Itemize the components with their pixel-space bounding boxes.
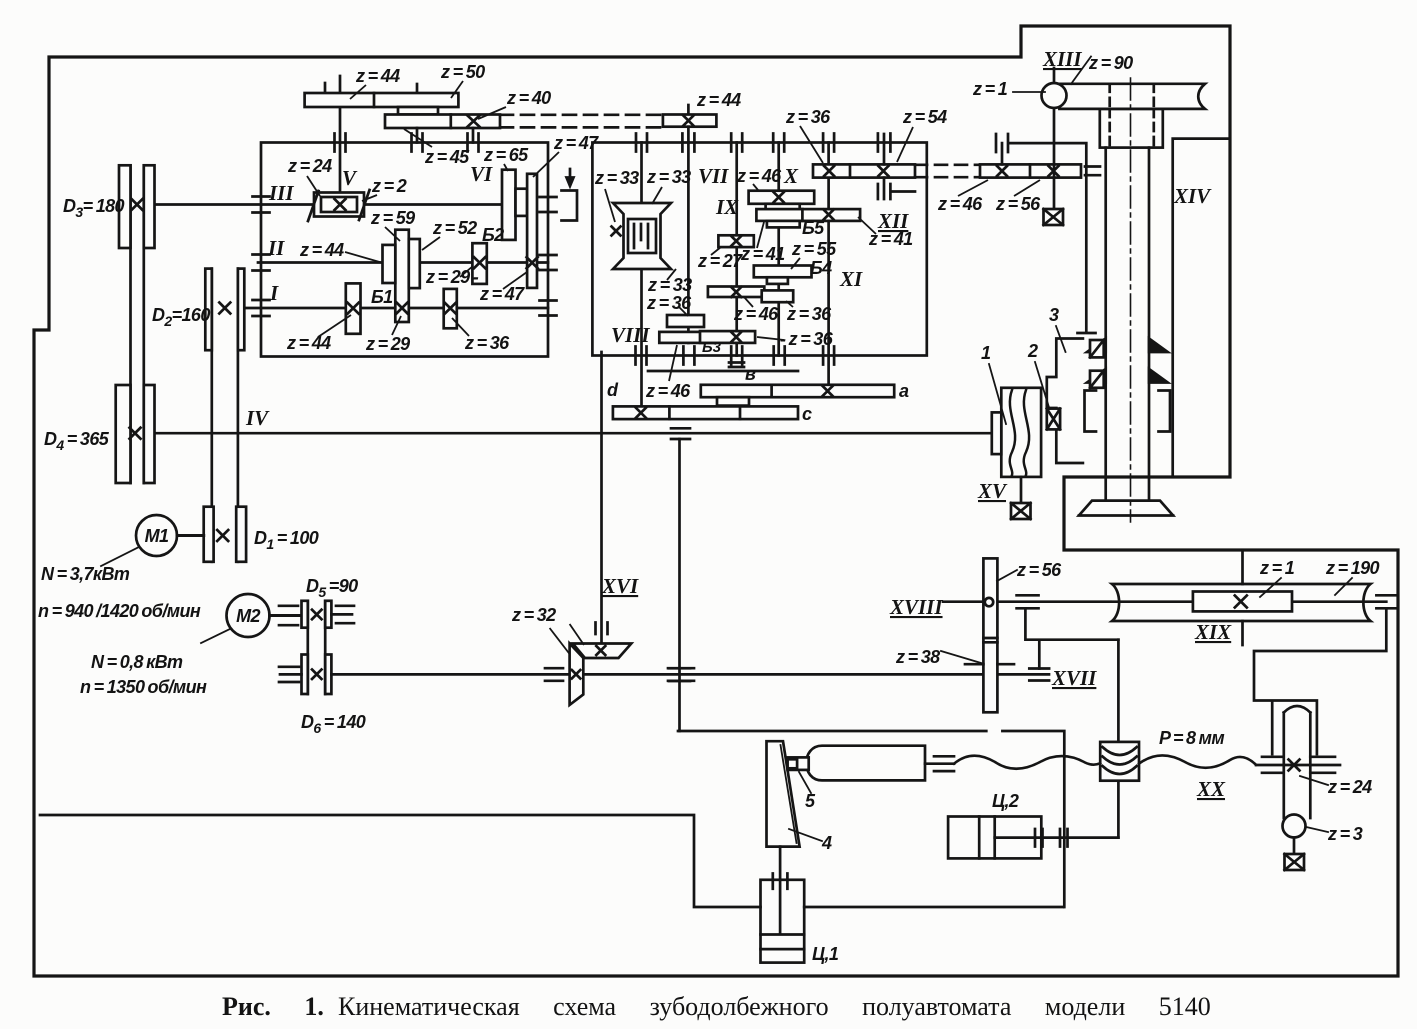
bearing shaft III at box1 right edge — [540, 197, 557, 212]
worm sleeve XIX — [1112, 584, 1371, 621]
leader z=41 right — [858, 217, 876, 234]
clutch housing item 3 — [1047, 339, 1083, 464]
ram tail shaft — [925, 762, 954, 765]
M2 leader line — [201, 629, 230, 643]
svg-text:VIII: VIII — [611, 323, 650, 347]
leader z=55 — [791, 258, 800, 269]
leader z=29 shaft II — [460, 266, 473, 277]
ram slide — [806, 746, 925, 781]
bearing right of XIX — [1376, 595, 1396, 608]
svg-text:Кинематическая схема зубодол: Кинематическая схема зубодолбежного полу… — [338, 992, 1211, 1021]
svg-text:XIV: XIV — [1173, 184, 1212, 208]
change-gear b upper line — [648, 370, 798, 373]
gear z=56 z=38 block — [983, 558, 997, 712]
shaft XVI vertical — [600, 352, 603, 644]
svg-text:5: 5 — [805, 791, 816, 811]
bearing shaft XI at box2 top — [823, 134, 834, 152]
leader z=47 top — [533, 152, 559, 177]
coupling on shaft IV to vertical feed shaft — [671, 428, 690, 439]
gear rect z=46 + z=56 — [980, 164, 1081, 177]
svg-text:XX: XX — [1196, 777, 1226, 801]
shaft X vertical — [777, 143, 780, 356]
M1 leader line — [101, 547, 139, 566]
bevel gear z=32 vertical — [570, 644, 584, 705]
gear z=46 on shaft X — [749, 191, 815, 211]
bearing shaft X at box2 bottom — [774, 347, 785, 365]
shaft stub z=46 — [1001, 143, 1004, 164]
shaft I — [244, 307, 548, 310]
bearing shaft IX at box2 bottom — [731, 347, 742, 365]
change-gear rack c — [613, 406, 798, 419]
svg-text:N = 0,8 кВт: N = 0,8 кВт — [91, 652, 183, 672]
leader z=33 right — [652, 187, 662, 204]
gear z=41 + B5 on shaft XI — [756, 209, 860, 227]
hub between z=50 and z=45 — [398, 107, 438, 115]
leader line item 1 — [989, 364, 1006, 424]
leader item 5 — [799, 772, 811, 793]
M1 shaft — [177, 534, 204, 537]
rope drum — [1100, 742, 1139, 781]
svg-text:z = 190: z = 190 — [1325, 558, 1380, 578]
shaft XII stub and bearings — [878, 134, 915, 200]
clutch X of z=29 on shaft I — [397, 303, 408, 314]
svg-text:в: в — [745, 364, 756, 384]
bearing shaft II at box1 right edge — [540, 255, 557, 270]
svg-text:z = 24: z = 24 — [1327, 777, 1372, 797]
bearing on shaft XVII right of bevel — [668, 668, 694, 681]
pulley D6 — [302, 655, 332, 695]
svg-text:z = 46: z = 46 — [736, 166, 782, 186]
svg-text:z = 32: z = 32 — [511, 605, 556, 625]
bearing shaft I at box1 left edge — [253, 300, 270, 316]
shaft XVII horizontal — [331, 673, 1049, 676]
bearing shaft VII at box2 bottom — [683, 347, 694, 365]
speed gearbox housing — [261, 143, 548, 357]
leader z=47 low — [503, 272, 527, 289]
svg-text:z = 36: z = 36 — [464, 333, 510, 353]
shaft XIX axis — [1112, 600, 1386, 603]
bearing at bevel z=32 — [596, 623, 608, 635]
gear z=29 on shaft II — [472, 243, 486, 284]
svg-text:z = 33: z = 33 — [594, 168, 639, 188]
svg-text:z = 40: z = 40 — [506, 88, 551, 108]
bearing shaft VIII at box2 bottom — [636, 347, 647, 365]
bearing shaft II at box1 left edge — [253, 255, 270, 271]
pulley D4 — [116, 385, 155, 483]
leader z=46 XII — [958, 180, 988, 196]
leader z=190 — [1335, 578, 1352, 595]
rod guide marks — [773, 874, 788, 889]
gear z=52 on shaft II — [409, 239, 420, 288]
shaft below z=3 — [1293, 838, 1296, 855]
svg-text:z = 52: z = 52 — [432, 218, 477, 238]
svg-text:XII: XII — [877, 209, 909, 233]
svg-text:z = 59: z = 59 — [370, 208, 415, 228]
shaft VII stub to box2 — [687, 127, 690, 143]
svg-text:XIX: XIX — [1194, 620, 1232, 644]
bearing right of XII row — [1085, 167, 1100, 176]
rope right span — [1139, 755, 1256, 767]
gear z=36 on shaft VII — [667, 315, 704, 327]
svg-text:z = 3: z = 3 — [1327, 824, 1363, 844]
leader line item 2 — [1035, 362, 1050, 409]
leader z=36 XII — [800, 126, 823, 163]
svg-text:IV: IV — [245, 406, 270, 430]
spindle body — [1106, 148, 1149, 501]
svg-text:z = 50: z = 50 — [440, 62, 485, 82]
svg-text:D5 =90: D5 =90 — [306, 576, 358, 600]
svg-text:M2: M2 — [236, 606, 260, 626]
svg-text:1: 1 — [981, 343, 991, 363]
svg-text:D6 = 140: D6 = 140 — [301, 712, 366, 736]
gear z=36 low on shaft IX — [700, 331, 755, 343]
leader z=33 left — [605, 189, 615, 222]
leader z=65 — [504, 164, 508, 171]
svg-text:d: d — [607, 380, 619, 400]
claw coupling at shaft XVII crossing — [669, 668, 690, 681]
gear z=44 on shaft II — [383, 245, 396, 283]
change-gear rack a — [701, 385, 894, 397]
svg-text:z = 55: z = 55 — [791, 239, 837, 259]
svg-text:z = 36: z = 36 — [785, 107, 831, 127]
leader z=50 — [451, 81, 463, 98]
rope left span — [954, 756, 1100, 769]
wire top housing segment — [1010, 143, 1096, 333]
pulley D2 — [205, 269, 244, 351]
belt D3-D4 — [131, 165, 144, 483]
svg-text:D2=160: D2=160 — [152, 305, 210, 329]
shaft VII vertical — [687, 143, 690, 343]
belt D5-D6 — [308, 601, 325, 694]
countershaft stub below z=45 — [416, 128, 419, 143]
svg-text:Б3: Б3 — [702, 339, 722, 356]
leader z=36 bottom — [452, 318, 469, 336]
gear rect z=44 + z=50 — [305, 93, 459, 107]
spindle bearing lower pair — [1087, 369, 1168, 383]
svg-text:XVII: XVII — [1051, 666, 1097, 690]
svg-text:Б5: Б5 — [802, 218, 825, 238]
svg-text:XIII: XIII — [1042, 47, 1082, 71]
gear z=90 sleeve — [1059, 57, 1205, 109]
coupling marks on b line — [729, 363, 744, 368]
cone drum on shaft VIII — [612, 203, 672, 269]
svg-text:n = 1350 об/мин: n = 1350 об/мин — [80, 677, 207, 697]
leader z=2 — [362, 195, 377, 201]
bearing shaft VII at box2 top — [682, 134, 694, 152]
svg-text:z = 41: z = 41 — [740, 244, 785, 264]
vertical feed shaft down from IV — [678, 439, 681, 731]
bearing shaft IX at box2 top — [731, 134, 742, 152]
bearing shaft VIII at box2 top — [636, 134, 647, 152]
roller item 5 — [788, 757, 809, 770]
spindle axis — [1130, 78, 1132, 522]
motor M2 — [227, 594, 270, 637]
svg-text:z = 1: z = 1 — [1259, 558, 1295, 578]
leader z=46 shaft X — [753, 184, 758, 190]
svg-text:z = 54: z = 54 — [902, 107, 947, 127]
coupling on shaft XVIII — [1017, 595, 1039, 608]
gear z=47 on shaft VI — [527, 174, 538, 288]
bearing shaft I at box1 right edge — [540, 301, 557, 316]
svg-text:D3= 180: D3= 180 — [63, 196, 125, 220]
worm z=2 on shaft III — [308, 190, 370, 221]
svg-text:z = 46: z = 46 — [733, 304, 779, 324]
thrust bearing below z=3 — [1285, 854, 1305, 870]
svg-text:Ц,2: Ц,2 — [992, 791, 1019, 811]
cylinder C1 — [761, 880, 805, 963]
chain loop z=24 — [1284, 706, 1311, 818]
elastic coupling item 1 — [1001, 388, 1041, 477]
thrust bearing below XV — [1011, 503, 1031, 519]
svg-text:z = 27: z = 27 — [697, 251, 743, 271]
shaft V vertical — [339, 76, 342, 193]
leader z=44 bottom — [318, 315, 351, 337]
svg-text:Б1: Б1 — [371, 287, 393, 307]
svg-text:D1 = 100: D1 = 100 — [254, 528, 319, 552]
leader z=3 — [1306, 827, 1328, 832]
shaft II — [258, 261, 548, 264]
shaft VII stub above gear — [687, 105, 690, 115]
svg-text:VII: VII — [698, 164, 729, 188]
svg-text:z = 47: z = 47 — [553, 133, 599, 153]
svg-text:z = 29: z = 29 — [365, 334, 410, 354]
clutch X on sprocket — [1289, 760, 1300, 771]
svg-text:z = 29 -: z = 29 - — [425, 267, 479, 287]
svg-text:z = 36: z = 36 — [786, 304, 832, 324]
bearing shaft XI at box2 bottom — [823, 347, 834, 365]
svg-text:IX: IX — [715, 195, 739, 219]
svg-text:z = 24: z = 24 — [287, 156, 332, 176]
dashed link z=54 to z=46 — [915, 165, 980, 177]
tool head column XIV outline — [1173, 139, 1229, 477]
svg-text:XVIII: XVIII — [889, 595, 943, 619]
gear z=36 on shaft I — [444, 289, 457, 328]
svg-text:2: 2 — [1027, 341, 1038, 361]
cam follower rod — [779, 847, 782, 934]
bearing pad upper — [1090, 340, 1104, 357]
svg-text:z = 38: z = 38 — [895, 647, 940, 667]
feed gearbox housing — [592, 143, 926, 356]
shaft XVIII horizontal — [943, 600, 1110, 603]
gear z=44 on shaft I — [346, 283, 361, 333]
bearing shaft X at box2 top — [773, 134, 784, 152]
chain sprocket shaft — [1256, 764, 1340, 767]
worm z=1 on XIX — [1193, 592, 1292, 612]
svg-text:XI: XI — [839, 267, 863, 291]
D6 left shaft stub — [279, 667, 302, 682]
D5 right shaft stub — [331, 606, 354, 623]
leader z=44 shaft II — [345, 252, 383, 263]
svg-text:XVI: XVI — [601, 574, 639, 598]
leader z=27 — [711, 247, 721, 255]
shaft III — [155, 203, 503, 206]
spindle foot — [1079, 501, 1173, 516]
svg-text:VI: VI — [470, 162, 493, 186]
shaft XV tail — [1020, 477, 1023, 503]
detent bracket — [562, 191, 578, 221]
claw coupling to shaft XVII — [1029, 669, 1049, 681]
leader line item 3 — [1056, 326, 1066, 352]
spindle bearing housing — [1100, 109, 1163, 148]
vertical shaft to rope drum — [1117, 640, 1120, 838]
svg-text:D4 = 365: D4 = 365 — [44, 429, 110, 453]
leader z=54 — [897, 127, 913, 162]
leader z=59 — [385, 227, 400, 241]
svg-text:z = 44: z = 44 — [299, 240, 344, 260]
leader z=38 gear — [941, 651, 981, 663]
coupling pair a on C2 rod — [1035, 829, 1043, 847]
shaft stub left of rect1 — [324, 83, 327, 93]
leader z=45 — [404, 129, 432, 147]
dashed link z=40 to z=44 — [500, 115, 663, 128]
leader z=32 b — [570, 624, 584, 645]
svg-text:z = 44: z = 44 — [696, 90, 741, 110]
leader z=1 worm — [1260, 578, 1281, 597]
leader z=36 mid — [786, 301, 793, 307]
svg-text:N = 3,7кВт: N = 3,7кВт — [41, 564, 130, 584]
bevel gear z=32 horizontal — [573, 644, 632, 659]
leader z=56 XII — [1014, 180, 1040, 196]
svg-text:P = 8 мм: P = 8 мм — [1159, 728, 1224, 748]
svg-text:M1: M1 — [145, 526, 169, 546]
shaft IV — [155, 432, 992, 435]
clutch item 2 — [1047, 409, 1060, 430]
leader z=29 bottom — [392, 316, 401, 335]
svg-text:z = 56: z = 56 — [1016, 560, 1062, 580]
svg-text:4: 4 — [821, 833, 832, 853]
bearing left of sprocket — [1262, 757, 1282, 773]
gear z=55 + B4 on shaft X — [754, 266, 812, 284]
svg-text:z = 46: z = 46 — [645, 381, 691, 401]
shaft XIII vertical — [1053, 68, 1056, 209]
z=40 shaft stub below — [472, 128, 475, 143]
coupling pair b on C2 rod — [1060, 829, 1068, 847]
M2 coupling — [279, 606, 298, 625]
bearing counter-shaft at box1 top — [412, 134, 423, 152]
shaft IX vertical — [735, 143, 738, 356]
detent arrow — [567, 169, 574, 186]
cylinder C2 — [948, 817, 1041, 859]
svg-text:a: a — [899, 381, 909, 401]
svg-text:X: X — [783, 164, 799, 188]
gear z=65 on shaft VI — [502, 170, 516, 240]
svg-text:z = 36: z = 36 — [646, 293, 692, 313]
hub line of z=38 — [965, 663, 1014, 666]
bearing at top housing segment — [996, 134, 1008, 152]
leader z=33 low — [667, 269, 676, 280]
countershaft stub above gear z=50 — [416, 84, 419, 93]
svg-text:z = 2: z = 2 — [371, 176, 407, 196]
svg-text:z = 56: z = 56 — [995, 194, 1041, 214]
leader z=56 gear — [997, 570, 1017, 581]
leader z=44 top — [350, 85, 366, 99]
shaft VIII vertical — [640, 143, 643, 418]
z=1 leader line — [1013, 91, 1045, 93]
svg-text:z = 33: z = 33 — [646, 167, 691, 187]
bearing right of sprocket — [1310, 757, 1335, 773]
svg-text:Рис. 1.: Рис. 1. — [222, 992, 324, 1021]
motor M1 — [136, 515, 177, 556]
gear z=27 on shaft IX — [718, 235, 753, 247]
svg-text:3: 3 — [1049, 305, 1059, 325]
svg-text:XV: XV — [977, 479, 1008, 503]
pulley D5 — [302, 601, 332, 628]
gear rect z=45 + z=40 — [385, 115, 500, 129]
leader z=40 — [478, 107, 506, 119]
leader z=52 — [422, 237, 440, 250]
pulley D3 — [119, 165, 155, 248]
leader item 4 — [789, 829, 822, 841]
svg-text:- z = 36: - z = 36 — [780, 329, 834, 349]
shaft XI vertical — [827, 143, 830, 398]
svg-text:z = 47: z = 47 — [479, 284, 525, 304]
gear z=36 mid on shaft X — [762, 290, 794, 302]
leader z=46 VII bottom — [669, 345, 677, 381]
gear block B1 z=59 column on shaft II — [395, 230, 409, 322]
svg-text:z = 45: z = 45 — [424, 147, 470, 167]
belt D2-D1 — [212, 269, 238, 562]
svg-text:z = 33: z = 33 — [647, 275, 692, 295]
M2 shaft — [270, 614, 302, 617]
pulley D1 — [204, 507, 246, 562]
leader z=24 — [1300, 776, 1328, 785]
main box bottom edge — [40, 815, 1063, 907]
table shaft stub — [1241, 550, 1244, 645]
sprocket z=3 — [1283, 815, 1306, 838]
coupling on ram tail — [934, 756, 954, 771]
svg-text:c: c — [802, 404, 812, 424]
bearing pad lower — [1090, 371, 1104, 388]
spindle bearing upper pair — [1087, 339, 1168, 353]
svg-text:Ц,1: Ц,1 — [812, 944, 839, 964]
thrust bearing below XIII — [1044, 209, 1064, 225]
svg-text:Б2: Б2 — [482, 225, 504, 245]
svg-text:z = 44: z = 44 — [286, 333, 331, 353]
svg-text:III: III — [268, 181, 294, 205]
worm z=1 circle — [1042, 83, 1067, 108]
bearing shaft III at box1 left edge — [253, 197, 270, 213]
gear z=46 B3 on shaft VII — [659, 332, 715, 343]
svg-text:z = 46: z = 46 — [937, 194, 983, 214]
svg-text:V: V — [342, 166, 358, 190]
gear z=44 on shaft VII — [663, 115, 717, 127]
svg-text:II: II — [267, 236, 285, 260]
coupling left flange — [992, 412, 1002, 454]
gear rect z=36 + z=54 row XII — [813, 164, 915, 177]
gear z=46 mid on shaft IX — [708, 287, 764, 298]
leader -z=36 — [757, 337, 784, 340]
svg-text:Б4: Б4 — [810, 258, 832, 278]
svg-text:I: I — [269, 281, 279, 305]
leader z=24 — [307, 176, 320, 196]
cam box outline — [678, 731, 1064, 907]
hub between z=65 and z=47 — [516, 189, 528, 216]
leader z=46 mid — [744, 297, 753, 307]
bearing z40-shaft at box1 top — [468, 134, 479, 152]
spindle saddle brackets — [1085, 391, 1171, 432]
svg-text:z = 1: z = 1 — [972, 79, 1008, 99]
svg-text:n = 940 /1420 об/мин: n = 940 /1420 об/мин — [38, 601, 201, 621]
svg-text:z = 44: z = 44 — [355, 66, 400, 86]
bracket XIX to chain drive — [1254, 608, 1386, 754]
C2 piston rod — [995, 836, 1119, 839]
leader z=32 a — [550, 628, 570, 654]
bearing shaft V at box1 top — [335, 134, 346, 152]
change-gear b idler — [717, 397, 749, 405]
gearcase bracket under XVIII — [1025, 608, 1118, 668]
leader z=36 VII — [678, 306, 688, 316]
bearing on shaft XVII left of bevel — [545, 668, 563, 681]
